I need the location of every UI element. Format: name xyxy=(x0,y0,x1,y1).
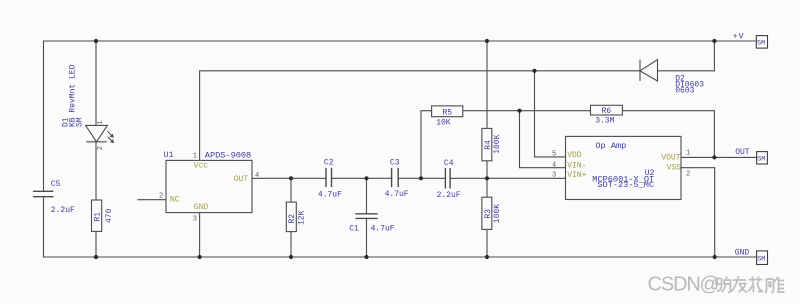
junction node feedback net R5/R6/VIN- xyxy=(517,109,521,113)
svg-text:2: 2 xyxy=(97,146,105,150)
svg-text:SOT-23-5_MC: SOT-23-5_MC xyxy=(597,180,654,190)
junction node main line at C1 xyxy=(364,176,368,180)
junction node main line at R5 branch xyxy=(419,176,423,180)
svg-text:OUT: OUT xyxy=(735,148,750,157)
resistor R5 body xyxy=(432,106,463,117)
svg-text:1: 1 xyxy=(97,120,105,124)
op-amp U2 MCP6001 body xyxy=(566,136,682,199)
wire D1 anode riser xyxy=(95,41,97,125)
junction node GND rail at R3 xyxy=(485,255,489,259)
wire node to R5 left xyxy=(421,111,432,179)
svg-text:VIN-: VIN- xyxy=(567,161,586,170)
svg-text:NC: NC xyxy=(170,195,180,204)
junction node GND rail at VSS xyxy=(713,255,717,259)
wire +V rail to R4 top xyxy=(486,41,488,128)
port box OUT SM xyxy=(757,152,768,164)
svg-text:R4: R4 xyxy=(484,140,493,150)
wire main line C4 to U2 VIN+ xyxy=(450,177,565,179)
svg-text:Vcc: Vcc xyxy=(194,162,209,171)
wire left vertical (C5 branch lower) xyxy=(43,197,45,257)
wire U1 NC pin stub xyxy=(138,199,166,201)
junction node main line at R4/R3 xyxy=(485,176,489,180)
wire Vcc node to U2 VDD xyxy=(535,71,566,157)
svg-text:4.7uF: 4.7uF xyxy=(318,191,342,200)
svg-text:CSDN: CSDN xyxy=(648,273,700,295)
wire R2 top xyxy=(290,178,292,202)
svg-text:VOUT: VOUT xyxy=(661,154,680,163)
svg-text:2.2uF: 2.2uF xyxy=(51,206,75,215)
svg-text:100K: 100K xyxy=(493,134,502,153)
wire R6 right to VOUT node xyxy=(622,111,714,158)
wire D1 cathode to R1 xyxy=(95,142,97,200)
wire main node to R3 top xyxy=(486,178,488,197)
svg-text:SM: SM xyxy=(757,40,765,48)
svg-text:OUT: OUT xyxy=(234,175,249,184)
svg-text:4.7uF: 4.7uF xyxy=(385,190,409,199)
junction node main line at R2 xyxy=(289,176,293,180)
wire R5 right to R6 left xyxy=(463,110,591,112)
svg-text:3: 3 xyxy=(193,216,197,224)
junction node on +V rail at D2 xyxy=(712,39,716,43)
junction node GND rail at C1 xyxy=(364,255,368,259)
wire C1 bottom to GND rail xyxy=(366,218,368,257)
wire main line C2 to C3 xyxy=(332,177,392,179)
wire U2 VOUT to OUT port xyxy=(681,156,757,158)
svg-text:SM: SM xyxy=(757,155,765,163)
svg-text:R2: R2 xyxy=(288,214,297,224)
diode D2 symbol xyxy=(640,60,658,81)
wire feedback node to U2 VIN- xyxy=(520,111,566,168)
junction node GND rail at R1 xyxy=(94,255,98,259)
svg-text:R3: R3 xyxy=(484,209,493,219)
svg-text:R5: R5 xyxy=(443,108,453,117)
LED D1 emission arrows xyxy=(107,131,114,143)
capacitor C1 plates xyxy=(355,214,377,219)
junction node OUT net xyxy=(712,155,716,159)
wire +V top rail xyxy=(44,40,757,42)
wire R3 bottom to GND rail xyxy=(486,229,488,257)
wire U1 Vcc riser and Vcc net horizontal xyxy=(200,71,640,161)
wire R1 to GND rail xyxy=(95,231,97,257)
wire main line U1 OUT to C2 xyxy=(252,177,326,179)
wire U1 GND pin to rail xyxy=(199,213,201,257)
port box GND SM xyxy=(757,251,768,265)
svg-text:VSS: VSS xyxy=(667,163,682,172)
LED D1 symbol xyxy=(86,125,108,141)
watermark chinese glyphs xyxy=(714,276,785,293)
port box +V SM xyxy=(756,36,767,49)
capacitor C5 plates xyxy=(33,191,53,196)
svg-text:470: 470 xyxy=(105,208,114,223)
svg-text:R1: R1 xyxy=(94,212,103,222)
wire main line C3 to C4 xyxy=(398,177,445,179)
junction node on +V rail at R4 xyxy=(485,39,489,43)
svg-text:2: 2 xyxy=(686,171,690,179)
svg-text:U1: U1 xyxy=(164,151,174,160)
svg-text:1: 1 xyxy=(193,152,197,160)
svg-text:0603: 0603 xyxy=(675,87,694,96)
svg-text:100K: 100K xyxy=(493,204,502,223)
capacitor C3 plates xyxy=(392,168,399,187)
resistor R3 body xyxy=(482,197,492,229)
junction node GND rail at U1 GND xyxy=(198,255,202,259)
svg-text:3.3M: 3.3M xyxy=(595,117,614,126)
svg-text:Op Amp: Op Amp xyxy=(595,141,626,151)
svg-text:C2: C2 xyxy=(324,158,334,167)
capacitor C4 plates xyxy=(445,168,450,189)
svg-text:C3: C3 xyxy=(390,158,400,167)
svg-text:4: 4 xyxy=(255,172,259,180)
wire left vertical (C5 branch upper) xyxy=(43,41,45,191)
junction node on +V rail at D1 xyxy=(94,39,98,43)
svg-text:APDS-9008: APDS-9008 xyxy=(205,151,251,161)
svg-text:+V: +V xyxy=(733,33,745,42)
resistor R2 body xyxy=(286,202,296,232)
svg-text:2: 2 xyxy=(159,193,163,201)
wire R2 bottom to GND rail xyxy=(290,232,292,257)
svg-text:4: 4 xyxy=(552,161,556,169)
wire U2 VSS to GND rail xyxy=(681,168,715,257)
svg-text:C1: C1 xyxy=(349,224,359,233)
svg-text:10K: 10K xyxy=(436,118,451,127)
svg-text:GND: GND xyxy=(735,248,750,257)
wire C1 top xyxy=(366,178,368,214)
svg-text:3: 3 xyxy=(552,171,556,179)
svg-text:VIN+: VIN+ xyxy=(567,171,586,180)
resistor R6 body xyxy=(591,105,623,115)
svg-text:GND: GND xyxy=(194,203,209,212)
svg-text:1: 1 xyxy=(686,150,690,158)
wire GND bottom rail xyxy=(44,256,757,258)
capacitor C2 plates xyxy=(326,168,332,187)
resistor R4 body xyxy=(482,128,492,160)
svg-text:C4: C4 xyxy=(444,159,454,168)
svg-text:4.7uF: 4.7uF xyxy=(371,224,395,233)
svg-text:SM: SM xyxy=(76,117,85,127)
wire D2 anode to +V rail xyxy=(658,41,715,71)
svg-text:C5: C5 xyxy=(51,180,61,189)
svg-text:5: 5 xyxy=(552,151,556,159)
svg-text:VDD: VDD xyxy=(567,151,582,160)
svg-text:12K: 12K xyxy=(298,210,307,225)
svg-text:SM: SM xyxy=(757,256,765,264)
svg-text:R6: R6 xyxy=(602,107,612,116)
svg-text:2.2uF: 2.2uF xyxy=(437,191,461,200)
IC U1 APDS-9008 body xyxy=(166,160,252,212)
resistor R1 body xyxy=(92,200,102,231)
junction node Vcc net to VDD branch xyxy=(532,69,536,73)
wire R4 bottom to main node xyxy=(486,161,488,179)
junction node GND rail at R2 xyxy=(289,255,293,259)
